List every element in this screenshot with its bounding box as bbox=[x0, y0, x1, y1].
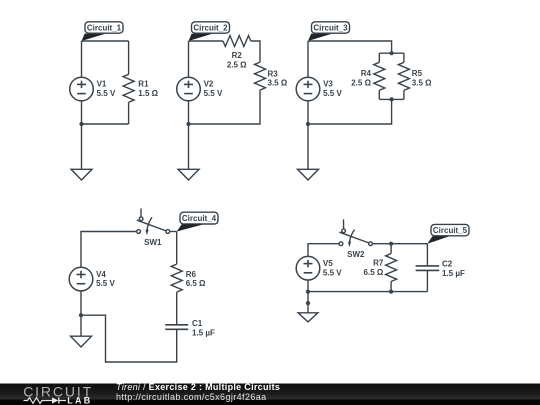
svg-text:V2: V2 bbox=[204, 80, 214, 89]
svg-text:1.5 µF: 1.5 µF bbox=[442, 269, 465, 278]
wire node to R2 bbox=[189, 40, 224, 42]
wire parallel bottom bar bbox=[379, 98, 404, 100]
svg-text:C2: C2 bbox=[442, 260, 453, 269]
label R3 3.5 ohm bbox=[268, 69, 288, 87]
svg-text:2.5 Ω: 2.5 Ω bbox=[227, 60, 247, 69]
svg-text:1.5 µF: 1.5 µF bbox=[192, 328, 215, 337]
svg-text:R2: R2 bbox=[232, 51, 243, 60]
wire R7 bottom stub bbox=[390, 282, 392, 292]
resistor R1 bbox=[123, 74, 134, 102]
wire switch to node circuit 5 bbox=[372, 243, 427, 245]
wire bottom rail circuit 1 bbox=[82, 123, 129, 125]
resistor R6 bbox=[171, 264, 182, 292]
wire V5 bottom bbox=[307, 280, 309, 292]
capacitor C2 bbox=[416, 266, 440, 271]
resistor R2 bbox=[223, 36, 251, 47]
svg-text:Circuit_1: Circuit_1 bbox=[87, 24, 122, 33]
wire to ground circuit 2 bbox=[188, 124, 190, 169]
label R1 1.5 ohm bbox=[138, 80, 158, 98]
resistor R7 bbox=[386, 254, 397, 282]
node label Circuit_4 bbox=[180, 212, 218, 224]
label R5 3.5 ohm bbox=[412, 69, 432, 87]
label R6 6.5 ohm bbox=[186, 270, 206, 288]
wire switch to node bbox=[170, 231, 177, 233]
resistor R4 bbox=[374, 62, 385, 90]
svg-text:5.5 V: 5.5 V bbox=[323, 89, 342, 98]
svg-text:5.5 V: 5.5 V bbox=[204, 89, 223, 98]
svg-text:V1: V1 bbox=[97, 80, 107, 89]
junction circuit 1 bbox=[79, 122, 83, 126]
svg-text:V3: V3 bbox=[323, 80, 333, 89]
flag pointer Circuit_2 bbox=[189, 34, 213, 41]
svg-text:SW2: SW2 bbox=[347, 250, 365, 259]
svg-text:Circuit_3: Circuit_3 bbox=[313, 24, 348, 33]
voltage source V3 bbox=[296, 77, 320, 101]
logo resistor squiggle bbox=[24, 398, 48, 404]
junction parallel top bbox=[390, 51, 394, 55]
node label Circuit_5 bbox=[431, 224, 469, 235]
flag pointer Circuit_1 bbox=[82, 34, 106, 41]
wire to ground circuit 1 bbox=[81, 124, 83, 169]
wire C2 bottom stub bbox=[426, 270, 428, 291]
junction R7 top bbox=[389, 242, 393, 246]
flag pointer Circuit_3 bbox=[308, 34, 332, 41]
svg-text:6.5 Ω: 6.5 Ω bbox=[186, 279, 206, 288]
wire C2 top stub bbox=[426, 244, 428, 266]
svg-text:http://circuitlab.com/c5x6gjr4: http://circuitlab.com/c5x6gjr4f26aa bbox=[116, 392, 267, 402]
voltage source V5 bbox=[296, 256, 320, 280]
junction circuit 2 bbox=[186, 122, 190, 126]
wire R4 top stub bbox=[378, 53, 380, 62]
svg-text:R7: R7 bbox=[373, 259, 384, 268]
svg-text:6.5 Ω: 6.5 Ω bbox=[364, 268, 384, 277]
wire bottom rail circuit 5 bbox=[308, 291, 427, 293]
svg-text:5.5 V: 5.5 V bbox=[323, 268, 342, 277]
svg-text:R1: R1 bbox=[138, 80, 149, 89]
svg-text:C1: C1 bbox=[192, 319, 203, 328]
label R7 6.5 ohm bbox=[364, 259, 384, 277]
label C1 1.5 uF bbox=[192, 319, 215, 337]
switch SW1 bbox=[137, 209, 170, 236]
wire parallel to bottom rail bbox=[308, 99, 392, 124]
ground circuit 1 bbox=[71, 169, 92, 180]
resistor R3 bbox=[255, 62, 266, 90]
junction R7 bottom bbox=[389, 290, 393, 294]
junction ground circuit 5 bbox=[306, 301, 310, 305]
wire to ground circuit 5 bbox=[307, 292, 309, 313]
label C2 1.5 uF bbox=[442, 260, 465, 278]
wire V5 top to switch bbox=[308, 244, 339, 257]
wire R3 bottom bbox=[189, 90, 261, 124]
voltage source V2 bbox=[177, 77, 201, 101]
wire C1 bottom loop bbox=[81, 315, 177, 362]
wire R4 bottom stub bbox=[378, 90, 380, 99]
svg-text:Circuit_2: Circuit_2 bbox=[193, 24, 228, 33]
voltage source V1 bbox=[70, 77, 94, 101]
svg-text:V5: V5 bbox=[323, 259, 333, 268]
wire to ground circuit 4 bbox=[80, 315, 82, 336]
junction circuit 3 bbox=[306, 122, 310, 126]
resistor R5 bbox=[398, 62, 409, 90]
junction V5 bottom bbox=[306, 290, 310, 294]
svg-text:V4: V4 bbox=[96, 270, 106, 279]
wire V1 top bbox=[81, 41, 83, 77]
svg-text:LAB: LAB bbox=[67, 395, 91, 405]
wire top rail circuit 1 bbox=[82, 40, 129, 42]
wire V1 bottom bbox=[81, 101, 83, 124]
ground circuit 2 bbox=[178, 169, 199, 180]
svg-text:1.5 Ω: 1.5 Ω bbox=[138, 89, 158, 98]
junction parallel bottom bbox=[390, 97, 394, 101]
ground circuit 3 bbox=[298, 169, 319, 180]
wire V4 bottom bbox=[80, 291, 82, 315]
flag pointer Circuit_5 bbox=[427, 236, 449, 244]
svg-text:2.5 Ω: 2.5 Ω bbox=[351, 78, 371, 87]
svg-text:Tireni / Exercise 2 : Multiple: Tireni / Exercise 2 : Multiple Circuits bbox=[116, 382, 280, 392]
wire R1 bottom bbox=[128, 102, 130, 124]
wire V3 top bbox=[307, 41, 309, 77]
label V1 5.5 V bbox=[97, 80, 116, 98]
wire R5 top stub bbox=[403, 53, 405, 62]
wire V2 bottom bbox=[188, 101, 190, 124]
svg-text:3.5 Ω: 3.5 Ω bbox=[412, 78, 432, 87]
label V5 5.5 V bbox=[323, 259, 342, 277]
wire R2 to corner bbox=[251, 41, 260, 62]
wire V2 top bbox=[188, 41, 190, 77]
svg-text:R3: R3 bbox=[268, 69, 279, 78]
node label Circuit_2 bbox=[192, 22, 230, 33]
svg-text:SW1: SW1 bbox=[144, 238, 162, 247]
switch SW2 bbox=[339, 219, 372, 247]
svg-text:Circuit_5: Circuit_5 bbox=[433, 226, 468, 235]
label V3 5.5 V bbox=[323, 80, 342, 98]
wire R5 bottom stub bbox=[403, 90, 405, 99]
capacitor C1 bbox=[165, 325, 188, 330]
node label Circuit_1 bbox=[85, 22, 123, 33]
wire parallel top bar bbox=[379, 52, 404, 54]
wire R7 top stub bbox=[390, 244, 392, 254]
label V2 5.5 V bbox=[204, 80, 223, 98]
logo diode bbox=[48, 397, 67, 403]
junction circuit 4 bbox=[79, 313, 83, 317]
svg-text:R6: R6 bbox=[186, 270, 197, 279]
wire V4 top to switch bbox=[81, 232, 137, 268]
svg-text:R5: R5 bbox=[412, 69, 423, 78]
label V4 5.5 V bbox=[96, 270, 115, 288]
svg-text:Circuit_4: Circuit_4 bbox=[182, 214, 217, 223]
label R2 2.5 ohm bbox=[227, 51, 247, 69]
svg-text:5.5 V: 5.5 V bbox=[97, 89, 116, 98]
svg-text:5.5 V: 5.5 V bbox=[96, 279, 115, 288]
ground circuit 4 bbox=[71, 336, 92, 347]
label R4 2.5 ohm bbox=[351, 69, 371, 87]
flag pointer Circuit_4 bbox=[177, 224, 204, 231]
node label Circuit_3 bbox=[312, 22, 350, 33]
wire R1 top bbox=[128, 41, 130, 74]
ground circuit 5 bbox=[298, 313, 318, 322]
svg-text:R4: R4 bbox=[361, 69, 372, 78]
wire to ground circuit 3 bbox=[307, 124, 309, 169]
wire R6 to C1 bbox=[176, 292, 178, 325]
wire node to R6 bbox=[176, 232, 178, 265]
wire V3 bottom bbox=[307, 101, 309, 124]
footer bar bbox=[0, 384, 540, 405]
voltage source V4 bbox=[69, 267, 93, 291]
svg-text:3.5 Ω: 3.5 Ω bbox=[268, 79, 288, 88]
wire top rail circuit 3 bbox=[308, 41, 392, 53]
